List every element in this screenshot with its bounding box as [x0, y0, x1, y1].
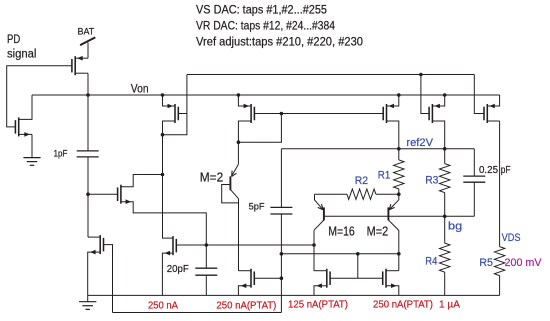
wire: R2 right lead [376, 193, 399, 195]
wire: Q1 collector down to N3 drain [313, 230, 315, 271]
text: bg label [448, 220, 462, 232]
wire: NB gate line to Q1 collector [176, 244, 314, 246]
node: R1-R2-Q2 junction [397, 192, 401, 196]
wire: NC drain lead [88, 236, 100, 238]
wire: P1 drain [163, 121, 176, 135]
node: P2 drain tie junction [237, 140, 241, 144]
transistor N2 (NMOS mirror) [241, 269, 255, 288]
wire: NC gate to mirror bias bus [104, 245, 113, 313]
wire: T4 drain to ref2V [432, 121, 444, 149]
wire: PD signal net to P0 gate and M1 gate [7, 66, 72, 127]
node: P2 gate tie junction [280, 112, 284, 116]
capacitor C4 0.25pF [463, 176, 485, 182]
wire: T4 source to Von [432, 95, 444, 106]
transistor NA (NMOS cascode) [118, 185, 132, 204]
resistor R1 [394, 160, 404, 189]
svg-text:R2: R2 [355, 175, 368, 187]
svg-text:250 nA(PTAT): 250 nA(PTAT) [373, 299, 433, 311]
wire: ref2V node line [281, 148, 474, 150]
svg-text:PD: PD [7, 34, 20, 46]
ground symbol G1 [23, 158, 40, 166]
text: R2 label [355, 175, 368, 187]
wire: M1 drain to Von rail [19, 95, 32, 119]
wire: upper PMOS gate bias rail [187, 74, 474, 76]
svg-text:Vref adjust:taps #210, #220, #: Vref adjust:taps #210, #220, #230 [196, 36, 363, 48]
wire: R3 top lead [444, 149, 446, 164]
node: NA drain junction [161, 173, 165, 177]
text: Von node label [131, 83, 149, 95]
node: Von junction dots [86, 93, 446, 97]
transistor P0 (PMOS, BAT switch) [72, 56, 83, 75]
wire: N3 drain lead [314, 270, 327, 272]
wire: P1 gate-drain tie and bias rail riser [163, 75, 187, 135]
wire: P1 gate lead [178, 113, 187, 115]
text: 250 nA(PTAT) current label 2 [373, 299, 433, 311]
resistor R5 [494, 247, 504, 276]
wire: T3 source to Von [387, 95, 399, 106]
svg-text:20pF: 20pF [167, 264, 189, 275]
node: Q1 collector junction [312, 243, 316, 247]
transistor P1 (diode-connected PMOS) [168, 104, 179, 123]
transistor N4 (NMOS mirror) [383, 269, 397, 288]
svg-text:BAT: BAT [78, 26, 95, 37]
transistor NC (NMOS mirror left) [90, 235, 104, 254]
svg-text:VS DAC: taps #1,#2...#255: VS DAC: taps #1,#2...#255 [196, 5, 327, 17]
svg-text:1pF: 1pF [54, 149, 68, 160]
wire: P1 source from Von [163, 95, 176, 106]
wire: R4 top lead [444, 216, 446, 243]
resistor R3 [440, 164, 450, 193]
text: R3 label [425, 175, 438, 187]
text: 20pF label [167, 264, 189, 275]
wire: M1 source to ground [19, 134, 32, 157]
text: M=2 label for Q3 [200, 169, 223, 184]
wire: R5 bottom lead [499, 276, 501, 296]
capacitor C1 1pF [77, 151, 99, 157]
ground symbol G2 [79, 295, 96, 309]
transistor P2 (diode-connected PMOS) [244, 104, 255, 123]
wire: R1 bottom lead [398, 189, 400, 194]
svg-text:M=2: M=2 [200, 169, 223, 184]
svg-text:Von: Von [131, 83, 149, 95]
wire: P2 drain to Q3 emitter [238, 121, 251, 164]
resistor R2 [347, 189, 376, 199]
wire: Von to 1pF cap [87, 95, 89, 151]
wire: R4 bottom lead [444, 272, 446, 295]
wire: P0 drain to Von rail [75, 73, 88, 95]
svg-text:200 mV: 200 mV [505, 257, 543, 269]
wire: P2 source from Von [238, 95, 251, 106]
wire: R1 top lead [398, 149, 400, 160]
wire: N2 source to ground rail [238, 286, 251, 296]
wire: R3 bottom lead to bg [444, 193, 446, 217]
wire: NA gate lead [88, 193, 118, 195]
wire: 1pF bottom to NA gate and NC drain [87, 157, 89, 237]
svg-text:M=16: M=16 [328, 224, 355, 239]
text: 125 nA(PTAT) current label [288, 299, 348, 311]
text: 5pF label [249, 202, 265, 213]
node: NA gate junction [86, 192, 90, 196]
svg-text:5pF: 5pF [249, 202, 265, 213]
wire: bg base line [324, 215, 474, 217]
svg-text:R3: R3 [425, 175, 438, 187]
text: R4 label [425, 255, 437, 267]
transistor Q1 (PNP, M=16) [314, 194, 324, 230]
svg-text:pF: pF [501, 165, 511, 176]
wire: P2 gate lead and gate line [254, 113, 383, 115]
node: T4 gate tap on bias rail [419, 73, 423, 77]
text: 1pF label [54, 149, 68, 160]
text: ref2V label [406, 137, 433, 149]
text: M=16 label [328, 224, 355, 239]
wire: N3-N4 gate line [330, 277, 383, 279]
svg-text:250 nA: 250 nA [148, 299, 178, 311]
wire: Q3 collector down to N2 drain [238, 199, 240, 271]
text: 0.25 pF label [479, 165, 511, 176]
text: Vref adjust tap list [196, 36, 363, 48]
transistor Q3 (PNP, M=2) [230, 164, 238, 198]
wire: NA drain to P1 drain [121, 175, 163, 187]
wire: T5 gate riser to bias rail [474, 75, 484, 114]
wire: Q2 collector down to N4 drain [398, 230, 400, 270]
wire: P1 drain down to NB drain [163, 135, 174, 238]
node: Q2 collector junction [397, 252, 401, 256]
wire: P2 gate-drain tie [238, 114, 281, 143]
svg-text:R4: R4 [425, 255, 437, 267]
svg-text:VR DAC: taps #12, #24...#384: VR DAC: taps #12, #24...#384 [196, 21, 336, 33]
svg-text:0.25: 0.25 [479, 165, 498, 176]
text: R5 label [479, 257, 493, 269]
text: VDS label [502, 232, 521, 244]
wire: NC source to ground [88, 252, 101, 295]
transistor T5 (PMOS, VDS branch) [484, 104, 495, 123]
transistor N3 (NMOS mirror) [316, 269, 330, 288]
wire: T5 drain to R5 [487, 121, 499, 247]
resistor R4 [440, 243, 450, 272]
BAT supply slash [80, 37, 95, 45]
svg-text:M=2: M=2 [367, 224, 389, 239]
wire: Q3 base-collector tie [222, 185, 239, 203]
node: gate bus junction [356, 252, 360, 256]
svg-text:R1: R1 [378, 169, 391, 181]
transistor M1 (NMOS, PD signal) [15, 117, 30, 136]
wire: P0 source lead to BAT [75, 43, 88, 59]
svg-text:R5: R5 [479, 257, 493, 269]
transistor Q2 (PNP, M=2) [388, 194, 398, 230]
text: 250 nA(PTAT) current label [216, 299, 276, 311]
wire: R2 left lead [315, 193, 347, 195]
wire: N2 gate lead [254, 277, 281, 279]
node: bg junction at R3/R4 [443, 215, 447, 219]
text: 250 nA current label [148, 299, 178, 311]
svg-text:ref2V: ref2V [406, 137, 433, 149]
wire: N4 drain lead [386, 270, 399, 272]
wire: T4 gate riser to bias rail [421, 75, 429, 114]
wire: N2 drain lead [239, 270, 252, 272]
transistor T4 (PMOS current source) [429, 104, 440, 123]
wire: T3 drain to ref2V [387, 121, 399, 149]
text: 1 uA current label [439, 299, 460, 311]
wire: 0.25pF bottom to bg line [473, 182, 475, 216]
node: mirror-gate junctions on 5pF branch [280, 252, 284, 280]
node: 20pF top junction [205, 243, 209, 247]
text: PD signal label [7, 34, 36, 60]
wire: NB source to ground rail [162, 253, 173, 295]
wire: mirror gate bus to Q2 collector [281, 253, 398, 255]
wire: NA source to 20pF top [121, 202, 206, 269]
node: ref2V junctions [397, 147, 447, 151]
transistor NB (NMOS mirror) [165, 236, 177, 255]
wire: T5 source to Von [487, 95, 499, 106]
svg-text:250 nA(PTAT): 250 nA(PTAT) [216, 299, 276, 311]
text: 200 mV label [505, 257, 543, 269]
text: VS DAC tap list [196, 5, 327, 17]
text: R1 label [378, 169, 391, 181]
svg-text:1 µA: 1 µA [439, 299, 460, 311]
svg-text:125 nA(PTAT): 125 nA(PTAT) [288, 299, 348, 311]
node: P1 drain junction [161, 133, 165, 137]
svg-text:bg: bg [448, 220, 462, 232]
wire: N4 source to ground rail [386, 286, 399, 296]
wire: Von supply rail [32, 94, 500, 96]
wire: N3 source to ground rail [314, 286, 327, 296]
wire: ground rail [88, 294, 500, 296]
wire: 20pF bottom to ground rail [205, 275, 207, 295]
text: M=2 label for Q2 [367, 224, 389, 239]
svg-text:signal: signal [7, 49, 36, 61]
text: BAT label [78, 26, 95, 37]
wire: ref2V to 5pF cap [280, 149, 282, 208]
wire: gate bus riser to N3 N4 gates [357, 254, 359, 278]
svg-text:VDS: VDS [502, 232, 521, 244]
capacitor C2 5pF [270, 207, 292, 214]
capacitor C3 20pF [195, 268, 217, 275]
text: VR DAC tap list [196, 21, 336, 33]
transistor T3 (PMOS current source) [383, 104, 394, 123]
wire: mirror bias bus bottom run [113, 312, 282, 314]
wire: 5pF bottom to mirror gate bus [280, 214, 282, 313]
wire: ref2V to 0.25pF cap [473, 149, 475, 176]
